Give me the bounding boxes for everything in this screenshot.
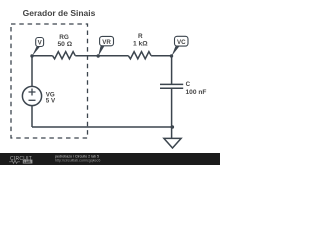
svg-text:R: R xyxy=(138,33,143,40)
svg-text:http://circuitlab.com/cgqkec6: http://circuitlab.com/cgqkec6 xyxy=(55,158,100,162)
svg-text:C: C xyxy=(186,81,191,88)
svg-text:Gerador de Sinais: Gerador de Sinais xyxy=(23,8,96,18)
svg-text:VC: VC xyxy=(177,39,186,46)
svg-text:5 V: 5 V xyxy=(46,97,56,104)
svg-text:50 Ω: 50 Ω xyxy=(57,41,72,48)
svg-text:VR: VR xyxy=(102,39,111,46)
svg-text:100 nF: 100 nF xyxy=(186,89,207,96)
svg-text:LAB: LAB xyxy=(24,160,32,164)
svg-text:1 kΩ: 1 kΩ xyxy=(133,40,148,47)
